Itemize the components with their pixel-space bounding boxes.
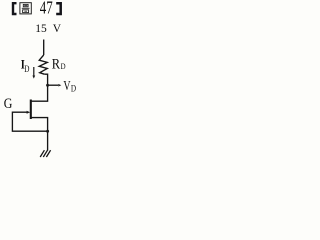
svg-text:47: 47 [40, 0, 53, 18]
svg-text:D: D [24, 64, 29, 74]
svg-text:D: D [61, 61, 66, 71]
svg-text:V: V [63, 77, 70, 93]
svg-text:G: G [4, 95, 13, 112]
svg-text:15: 15 [35, 23, 47, 35]
svg-text:V: V [53, 23, 62, 35]
svg-text:D: D [71, 84, 76, 94]
svg-text:R: R [52, 55, 61, 71]
